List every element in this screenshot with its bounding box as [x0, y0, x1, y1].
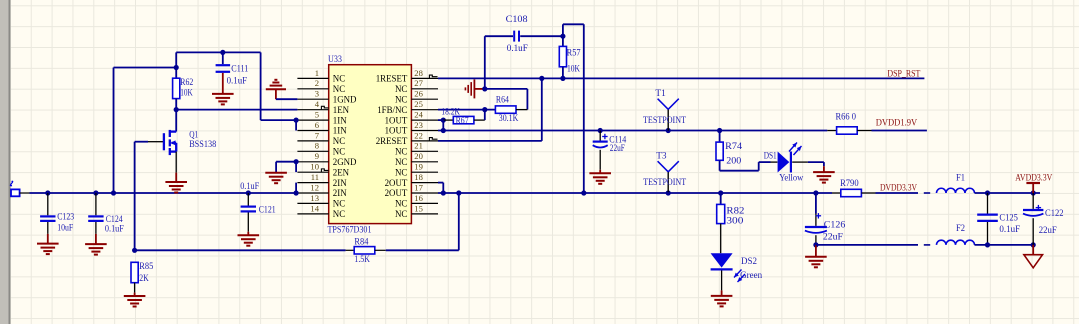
svg-text:C125: C125: [999, 214, 1018, 224]
junction: [666, 190, 671, 195]
svg-text:R84: R84: [354, 237, 368, 247]
svg-text:23: 23: [414, 120, 423, 130]
wire F1 to AVDD: [975, 192, 1041, 194]
svg-text:24: 24: [414, 110, 423, 120]
svg-text:C111: C111: [231, 65, 248, 75]
svg-text:NC: NC: [395, 157, 407, 167]
svg-text:10uF: 10uF: [57, 224, 73, 234]
svg-text:22uF: 22uF: [1039, 226, 1057, 236]
svg-text:R790: R790: [840, 179, 859, 189]
capacitor C122: [1032, 193, 1034, 209]
ground (R85): [124, 296, 146, 307]
svg-text:NC: NC: [333, 199, 345, 209]
svg-text:NC: NC: [395, 167, 407, 177]
port (5V input): [11, 189, 20, 196]
window edge band (left): [0, 0, 9, 324]
wire R85 bottom: [134, 283, 136, 293]
svg-text:R57: R57: [567, 49, 581, 59]
wire DS1 cathode stub: [792, 161, 808, 163]
svg-text:AVDD3.3V: AVDD3.3V: [1015, 173, 1052, 183]
wire port stub: [20, 192, 30, 194]
wire R84 right stub: [375, 249, 386, 251]
wire gnd link: [485, 88, 528, 90]
wire R57 top: [562, 24, 564, 46]
U33 pin 2 (NC): [297, 78, 345, 94]
U33 pin 9 (2GND): [297, 151, 357, 167]
wire C108 left riser: [484, 36, 486, 89]
svg-text:17: 17: [414, 182, 423, 192]
svg-text:2: 2: [315, 78, 319, 88]
svg-text:2IN: 2IN: [333, 188, 347, 198]
svg-text:2EN: 2EN: [333, 167, 350, 177]
junction: [246, 190, 251, 195]
U33 pin 23 (1OUT): [385, 120, 438, 136]
U33 pin 25 (1FB/NC): [377, 99, 438, 115]
svg-text:NC: NC: [395, 199, 407, 209]
ground (pin3) bars: [266, 80, 286, 89]
svg-text:0.1uF: 0.1uF: [999, 225, 1020, 235]
U33 pin 7 (NC): [297, 130, 345, 146]
junction: [441, 128, 446, 133]
svg-text:20: 20: [414, 151, 423, 161]
svg-text:0.1uF: 0.1uF: [507, 44, 528, 54]
junction: [220, 50, 225, 55]
U33 pin 27 (NC): [395, 78, 438, 94]
svg-text:C122: C122: [1045, 209, 1064, 219]
wire C108 right: [520, 35, 563, 37]
svg-text:NC: NC: [395, 84, 407, 94]
svg-text:DSP_RST: DSP_RST: [887, 69, 920, 79]
ground stub (DS1): [823, 166, 825, 172]
svg-text:Green: Green: [740, 271, 762, 281]
svg-text:28: 28: [414, 68, 423, 78]
svg-text:DS1: DS1: [764, 152, 777, 162]
svg-text:R74: R74: [725, 142, 742, 152]
junction: [1031, 242, 1036, 247]
svg-text:4: 4: [315, 99, 320, 109]
svg-text:C126: C126: [824, 220, 846, 230]
U33 pin 11 (2IN): [297, 172, 347, 188]
capacitor C123: [40, 193, 55, 244]
svg-text:C123: C123: [57, 213, 74, 223]
ground stub (Q1): [175, 173, 177, 182]
svg-text:1: 1: [315, 68, 319, 78]
capacitor C111: [216, 65, 231, 94]
wire top link: [563, 23, 584, 25]
svg-text:DVDD1.9V: DVDD1.9V: [876, 118, 918, 128]
C122 plates: [1023, 205, 1043, 216]
svg-text:9: 9: [315, 151, 319, 161]
svg-text:1EN: 1EN: [333, 105, 350, 115]
svg-text:R82: R82: [726, 207, 744, 217]
svg-text:Yellow: Yellow: [779, 173, 803, 183]
junction: [294, 159, 299, 164]
svg-text:F1: F1: [956, 173, 965, 183]
resistor R790 (R79 0 ohm): [832, 192, 841, 194]
svg-text:19: 19: [414, 162, 423, 172]
U33 pin 24 (1OUT): [385, 110, 438, 126]
resistor R85: [131, 262, 138, 282]
U33 pin 3 (1GND): [297, 89, 357, 105]
svg-text:2RESET: 2RESET: [376, 136, 408, 146]
svg-text:22: 22: [414, 130, 423, 140]
svg-text:300: 300: [726, 217, 743, 227]
wire to R62 top: [114, 67, 177, 69]
U33 pin 21 (NC): [395, 141, 438, 157]
svg-text:5: 5: [315, 110, 319, 120]
svg-text:U33: U33: [328, 55, 342, 65]
svg-text:TESTPOINT: TESTPOINT: [643, 178, 686, 188]
svg-text:200: 200: [726, 156, 741, 166]
wire input riser: [113, 68, 115, 194]
wire 5V input line: [30, 192, 297, 194]
wire Q1 source: [175, 152, 177, 173]
wire R82 to DS2: [720, 224, 722, 254]
wire 1EN (pin4): [176, 109, 297, 111]
wire DS1 cathode: [808, 161, 824, 163]
svg-text:25: 25: [414, 99, 423, 109]
svg-text:7: 7: [315, 130, 320, 140]
wire R64 right riser: [526, 89, 528, 110]
junction: [294, 190, 299, 195]
junction: [560, 76, 565, 81]
transistor Q1 BSS138: [135, 130, 177, 155]
wire pin18 jog: [438, 182, 443, 184]
U33 pin 26 (NC): [395, 89, 438, 105]
wire DSP_RST net: [438, 77, 924, 79]
junction: [93, 190, 98, 195]
wire DS2 cathode: [721, 271, 723, 291]
resistor R62: [173, 78, 180, 98]
wire DVDD1.9V: [872, 130, 927, 132]
testpoint T1: [643, 89, 686, 130]
ground (C114): [589, 173, 611, 184]
svg-text:10: 10: [310, 162, 319, 172]
svg-text:27: 27: [414, 78, 423, 88]
junction: [482, 107, 487, 112]
svg-text:NC: NC: [395, 94, 407, 104]
inductor F2 coil: [937, 240, 975, 245]
wire riser to rail: [458, 193, 460, 250]
svg-text:NC: NC: [333, 136, 345, 146]
svg-text:12: 12: [310, 182, 319, 192]
svg-text:26: 26: [414, 89, 423, 99]
svg-text:0.1uF: 0.1uF: [227, 77, 248, 87]
junction: [718, 190, 723, 195]
svg-text:22uF: 22uF: [823, 233, 843, 243]
junction: [813, 242, 818, 247]
svg-text:10K: 10K: [180, 89, 193, 99]
wire R74 bottom: [719, 160, 721, 170]
ground (C123): [37, 244, 59, 255]
junction: [456, 190, 461, 195]
ground (earth, FB node): [465, 79, 483, 98]
junction: [294, 118, 299, 123]
junction: [1031, 190, 1036, 195]
U33 pin 18 (2OUT): [385, 172, 438, 188]
wire C111 tap: [222, 52, 224, 64]
junction: [174, 107, 179, 112]
junction: [132, 248, 137, 253]
wire DVDD3.3V rail (2OUT): [438, 192, 832, 194]
svg-text:TPS767D301: TPS767D301: [328, 226, 372, 236]
wire R67 to FB: [484, 110, 486, 121]
svg-text:1RESET: 1RESET: [376, 74, 408, 84]
wire F2 to C122: [975, 244, 1034, 246]
ground (C111): [212, 94, 234, 105]
svg-text:0.1uF: 0.1uF: [240, 182, 259, 192]
C126 plates: [805, 213, 827, 233]
wire pin9 ground: [276, 161, 296, 163]
wire top link: [176, 51, 260, 53]
svg-text:8: 8: [315, 141, 319, 151]
junction: [717, 128, 722, 133]
svg-text:C121: C121: [259, 206, 276, 216]
capacitor C124: [88, 193, 103, 244]
svg-text:NC: NC: [333, 209, 345, 219]
ground bars (pin9): [265, 173, 287, 184]
wire to DS1: [720, 170, 759, 172]
svg-text:22uF: 22uF: [610, 144, 625, 154]
wire to R84: [135, 249, 346, 251]
svg-text:11: 11: [311, 172, 319, 182]
wire pin3 ground: [276, 98, 298, 100]
wire 1IN: [261, 119, 297, 121]
U33 pin 22 (2RESET): [376, 130, 438, 146]
ground stub (R85): [134, 293, 136, 296]
svg-text:30.1K: 30.1K: [499, 114, 519, 124]
active-low marker: [321, 169, 328, 172]
ground (C124): [85, 244, 107, 255]
svg-text:C108: C108: [506, 15, 528, 25]
wire pin5 to pin6: [295, 120, 297, 130]
junction: [985, 242, 990, 247]
svg-text:DS2: DS2: [741, 257, 757, 267]
U33 pin 10 (2EN): [297, 162, 349, 178]
resistor R66 (0 ohm): [827, 130, 836, 132]
ground stub: [275, 89, 277, 99]
U33 pin 4 (1EN): [297, 99, 349, 115]
ground (DS1): [813, 172, 835, 183]
U33 pin 19 (NC): [395, 162, 438, 178]
junction: [174, 65, 179, 70]
U33 pin 6 (1IN): [297, 120, 347, 136]
svg-text:1FB/NC: 1FB/NC: [377, 105, 407, 115]
wire C108 left: [485, 35, 513, 37]
U33 pin 8 (NC): [297, 141, 345, 157]
svg-text:2OUT: 2OUT: [385, 178, 408, 188]
wire R62 top segment: [175, 52, 177, 78]
svg-text:10K: 10K: [567, 64, 580, 74]
junction: [441, 190, 446, 195]
svg-text:1IN: 1IN: [333, 115, 347, 125]
svg-text:21: 21: [414, 141, 423, 151]
svg-text:R85: R85: [139, 262, 153, 272]
wire pin24 to pin23: [442, 120, 444, 130]
svg-text:NC: NC: [333, 147, 345, 157]
wire pin12 to pin11: [295, 183, 297, 193]
active-low marker: [429, 138, 437, 141]
svg-text:2K: 2K: [139, 274, 149, 284]
LED DS1 (yellow): [778, 143, 802, 173]
junction: [560, 34, 565, 39]
svg-text:DVDD3.3V: DVDD3.3V: [880, 183, 917, 193]
junction: [111, 190, 116, 195]
ground (Q1): [165, 182, 187, 193]
wire riser to rail: [583, 24, 585, 193]
U33 pin 17 (2OUT): [385, 182, 438, 198]
svg-text:NC: NC: [333, 84, 345, 94]
junction: [539, 76, 544, 81]
U33 pin 14 (NC): [297, 203, 345, 219]
svg-text:1IN: 1IN: [333, 126, 347, 136]
U33 pin 16 (NC): [395, 193, 438, 209]
U33 pin 12 (2IN): [297, 182, 347, 198]
svg-text:R64: R64: [496, 96, 509, 106]
wire to 1IN: [260, 52, 262, 120]
junction: [666, 128, 671, 133]
wire R84 to 2OUT tap: [386, 249, 459, 251]
svg-text:2OUT: 2OUT: [385, 188, 408, 198]
svg-text:R66 0: R66 0: [836, 112, 857, 122]
active-low marker: [429, 75, 437, 78]
U33 pin 28 (1RESET): [376, 68, 438, 84]
active-low marker: [321, 106, 328, 109]
junction: [482, 86, 487, 91]
wire 2RESET pullup: [438, 140, 542, 142]
svg-text:1OUT: 1OUT: [385, 115, 408, 125]
U33 pin 1 (NC): [297, 68, 345, 84]
svg-text:15: 15: [414, 203, 423, 213]
svg-text:1GND: 1GND: [333, 94, 357, 104]
wire 1OUT line: [438, 130, 827, 132]
inductor F1 coil: [937, 188, 975, 193]
svg-text:14: 14: [310, 203, 319, 213]
wire gate riser (R84/R85 node): [134, 142, 136, 251]
testpoint T3: [643, 152, 686, 194]
wire 1FB (pin25): [438, 109, 495, 111]
LED DS2 (green): [711, 253, 745, 282]
wire pin9 to pin10: [295, 162, 297, 172]
junction: [441, 118, 446, 123]
svg-text:16: 16: [414, 193, 423, 203]
capacitor C125: [987, 193, 989, 214]
wire rail to F1: [876, 192, 919, 194]
ground (DS2): [711, 296, 733, 307]
svg-text:NC: NC: [395, 209, 407, 219]
junction: [45, 190, 50, 195]
C114 plates: [593, 134, 608, 148]
svg-text:1OUT: 1OUT: [385, 126, 408, 136]
svg-text:C124: C124: [106, 215, 123, 225]
ground (power triangle): [1032, 245, 1034, 255]
ground stub (DS2): [721, 290, 723, 295]
svg-text:T1: T1: [655, 89, 666, 99]
svg-text:R67: R67: [456, 117, 469, 127]
svg-text:BSS138: BSS138: [189, 140, 216, 150]
ground (C121): [238, 235, 260, 246]
wire R62 bottom: [175, 99, 177, 110]
U33 pin 15 (NC): [395, 203, 438, 219]
svg-text:NC: NC: [395, 147, 407, 157]
junction: [985, 190, 990, 195]
svg-text:0.1uF: 0.1uF: [105, 225, 124, 235]
wire R57 bottom: [562, 67, 564, 79]
svg-text:TESTPOINT: TESTPOINT: [643, 116, 686, 126]
U33 pin 5 (1IN): [297, 110, 347, 126]
wire pin24: [438, 119, 443, 121]
svg-text:F2: F2: [956, 224, 965, 234]
svg-text:6: 6: [315, 120, 320, 130]
junction: [813, 190, 818, 195]
svg-text:13: 13: [310, 193, 319, 203]
svg-text:2IN: 2IN: [333, 178, 347, 188]
svg-text:R62: R62: [180, 78, 193, 88]
wire C126 to F2: [816, 244, 918, 246]
svg-text:3: 3: [315, 89, 319, 99]
wire Q1 drain riser: [175, 110, 177, 132]
ground stub (C126): [815, 245, 817, 257]
IC U1/U33 TPS767D301 body: [329, 65, 412, 224]
junction: [581, 190, 586, 195]
ground (C126): [805, 257, 827, 268]
resistor R84: [346, 249, 355, 251]
svg-text:NC: NC: [333, 74, 345, 84]
svg-text:2GND: 2GND: [333, 157, 357, 167]
svg-text:18: 18: [414, 172, 423, 182]
U33 pin 20 (NC): [395, 151, 438, 167]
junction: [598, 128, 603, 133]
U33 pin 13 (NC): [297, 193, 345, 209]
svg-text:T3: T3: [656, 152, 667, 162]
power symbol AVDD3.3V: [1026, 182, 1040, 184]
svg-text:1.5K: 1.5K: [354, 255, 370, 265]
